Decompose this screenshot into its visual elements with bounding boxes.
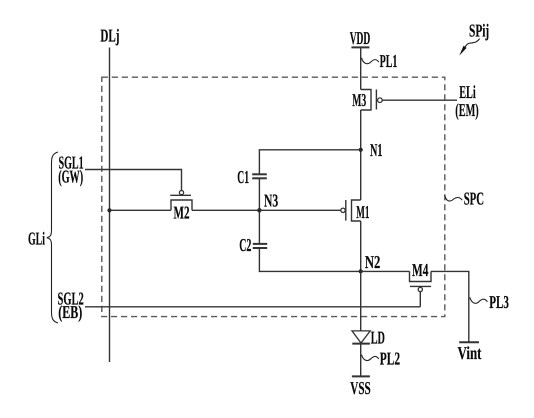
svg-text:PL3: PL3 bbox=[489, 292, 509, 312]
svg-text:M4: M4 bbox=[412, 260, 428, 280]
transistor M2 gate bar bbox=[170, 194, 191, 196]
transistor M4 gate bubble bbox=[418, 287, 422, 291]
transistor M1 channel and steps bbox=[352, 200, 361, 221]
svg-text:SPC: SPC bbox=[464, 189, 484, 209]
transistor M3 gate bar bbox=[375, 90, 377, 110]
svg-text:N2: N2 bbox=[365, 252, 381, 272]
svg-text:M1: M1 bbox=[356, 202, 369, 222]
svg-text:GLi: GLi bbox=[28, 228, 45, 248]
transistor M1 gate bubble bbox=[341, 208, 345, 212]
wire M3 gate to ELi bbox=[382, 99, 457, 101]
svg-text:SPij: SPij bbox=[469, 20, 489, 40]
arrow SPij pointer bbox=[465, 39, 480, 48]
capacitor C1 plates bbox=[252, 173, 267, 175]
svg-text:Vint: Vint bbox=[458, 343, 482, 363]
wire C2 bottom to N2 bbox=[259, 249, 360, 272]
wire M2 drain to N3 bbox=[192, 209, 259, 211]
wire N2 to M4 bbox=[361, 270, 410, 272]
svg-text:N3: N3 bbox=[264, 190, 278, 210]
wire M3 drain to N1 bbox=[360, 110, 362, 200]
svg-text:PL1: PL1 bbox=[380, 51, 398, 71]
transistor M2 gate bubble bbox=[179, 191, 183, 195]
power Vint bar bbox=[459, 341, 479, 343]
node N1 dot bbox=[359, 148, 363, 152]
svg-text:M2: M2 bbox=[174, 202, 190, 222]
node N2 dot bbox=[359, 269, 363, 273]
node N3 dot bbox=[257, 208, 261, 212]
capacitor C2 plates bbox=[253, 243, 267, 245]
transistor M3 gate bubble bbox=[378, 98, 383, 103]
svg-text:M3: M3 bbox=[352, 90, 366, 110]
wire N2 to LD bbox=[360, 271, 362, 331]
svg-text:C2: C2 bbox=[239, 235, 251, 255]
wire M1 drain to N2 bbox=[360, 221, 362, 271]
svg-text:N1: N1 bbox=[370, 140, 383, 160]
wire SGL2 bbox=[85, 306, 420, 308]
transistor M4 channel cup bbox=[410, 271, 432, 281]
brace GLi bbox=[47, 152, 58, 323]
svg-text:(EM): (EM) bbox=[455, 100, 478, 120]
svg-text:(EB): (EB) bbox=[58, 302, 82, 322]
wire C1 bottom to N3 bbox=[258, 179, 260, 210]
diode LD triangle bbox=[352, 331, 370, 343]
transistor M2 channel bbox=[171, 200, 192, 210]
svg-text:LD: LD bbox=[371, 327, 385, 347]
wire N1 to C1 top bbox=[259, 150, 360, 174]
label SPC squiggle bbox=[445, 195, 462, 201]
wire VDD to M3 source bbox=[360, 47, 362, 89]
wire DLj data line bbox=[109, 48, 111, 363]
power VSS bar bbox=[352, 375, 370, 377]
svg-text:(GW): (GW) bbox=[58, 166, 83, 186]
diode LD cathode bar bbox=[352, 343, 370, 345]
wire LD to VSS bbox=[360, 344, 362, 377]
svg-text:PL2: PL2 bbox=[380, 349, 400, 369]
label PL2 squiggle bbox=[362, 355, 379, 361]
transistor M1 gate bar bbox=[345, 200, 347, 221]
wire M4 gate down to SGL2 bbox=[419, 292, 421, 307]
wire SGL1 to M2 gate bbox=[85, 170, 182, 191]
transistor M3 channel and source/drain steps bbox=[361, 90, 371, 111]
wire N3 to M1 gate bbox=[259, 209, 340, 211]
node on DLj bbox=[107, 208, 111, 212]
power VDD bar bbox=[351, 46, 369, 48]
svg-text:VDD: VDD bbox=[350, 28, 371, 48]
label PL3 squiggle bbox=[470, 297, 488, 303]
wire N3 to C2 top bbox=[258, 210, 260, 243]
wire DLj to M2 source bbox=[110, 209, 172, 211]
svg-text:DLj: DLj bbox=[100, 25, 119, 45]
svg-text:VSS: VSS bbox=[350, 378, 370, 398]
wire M4 drain to PL3 line bbox=[431, 271, 469, 342]
dashed box SPC boundary bbox=[102, 77, 445, 316]
label PL1 squiggle bbox=[362, 58, 379, 64]
transistor M4 gate bar bbox=[410, 285, 431, 287]
svg-text:C1: C1 bbox=[237, 167, 249, 187]
